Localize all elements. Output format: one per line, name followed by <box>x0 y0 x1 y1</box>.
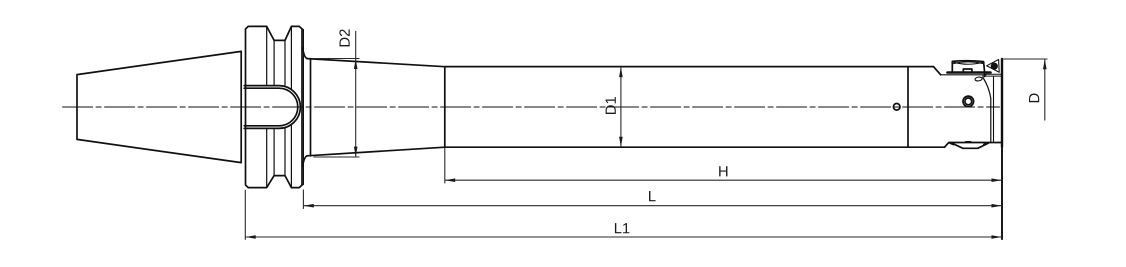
label D <box>1029 94 1039 103</box>
wedge clamp base plate <box>948 71 991 74</box>
head top chamfer <box>933 67 940 75</box>
body junction line <box>444 67 446 147</box>
pocket top lines <box>983 74 1002 76</box>
neck cone bottom <box>307 147 445 156</box>
flange top edge with V-groove <box>248 26 302 40</box>
head joint line <box>907 67 909 148</box>
pocket edge curve <box>983 78 991 143</box>
body bottom line <box>445 146 945 148</box>
groove edge line d <box>290 26 292 187</box>
taper shank <box>77 51 241 162</box>
insert right edge <box>1001 59 1003 147</box>
dim H line <box>445 179 1002 181</box>
flange bottom edge with V-groove <box>248 176 302 188</box>
neck tangent line <box>310 59 312 156</box>
dim D line <box>1044 59 1046 121</box>
flange right face <box>301 29 303 185</box>
fillet flange to neck top <box>303 48 308 59</box>
wedge notch <box>963 69 972 72</box>
wedge clamp body <box>952 61 984 73</box>
dim L line <box>303 205 1001 207</box>
groove edge line c <box>284 40 286 175</box>
groove edge line a <box>266 26 268 187</box>
side hole <box>893 104 900 111</box>
label D2 <box>339 29 349 46</box>
neck cone top <box>307 59 445 67</box>
centerline <box>63 106 1000 108</box>
insert screw <box>963 96 974 107</box>
label L <box>649 191 656 201</box>
pocket edge line <box>993 77 995 143</box>
head bottom pocket dish <box>951 143 989 149</box>
body top line <box>445 66 934 68</box>
drive slot outer <box>244 86 300 129</box>
dim H extension left <box>444 148 446 183</box>
head bottom step <box>945 143 1002 148</box>
coolant hole ellipse <box>975 77 983 82</box>
groove edge line b <box>273 40 275 175</box>
dim L1 right extension <box>1001 147 1003 240</box>
label L1 <box>615 223 630 233</box>
label D1 <box>606 97 616 114</box>
wedge right lower edge <box>984 72 986 76</box>
dim D2 line <box>355 31 357 157</box>
dim L1 extension left <box>244 190 246 240</box>
dim D1 line <box>620 67 622 147</box>
drive slot inner <box>244 88 298 126</box>
label H <box>719 166 727 176</box>
dim D extension line <box>1001 58 1048 60</box>
head top surface <box>941 74 986 76</box>
wedge lens detail <box>954 62 983 64</box>
flange left face <box>246 26 249 187</box>
fillet flange to neck bottom <box>303 156 308 166</box>
dim L1 line <box>245 236 1002 238</box>
dim L extension left <box>302 190 304 209</box>
dim D2 extension ticks <box>314 58 360 60</box>
bottom pocket marks <box>950 142 987 145</box>
clamp screw wedge triangle <box>987 60 1000 73</box>
clamp screw head <box>991 63 998 70</box>
flange right collar edge <box>302 30 304 185</box>
